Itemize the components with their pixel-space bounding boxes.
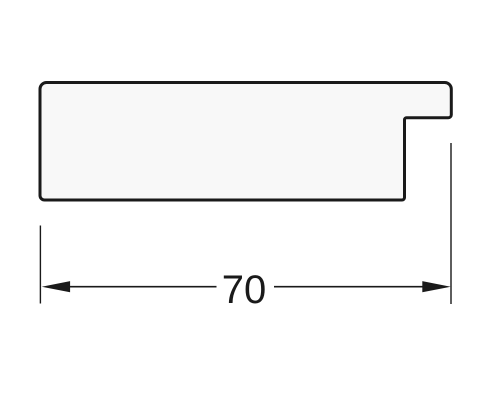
svg-text:70: 70 xyxy=(222,268,267,312)
